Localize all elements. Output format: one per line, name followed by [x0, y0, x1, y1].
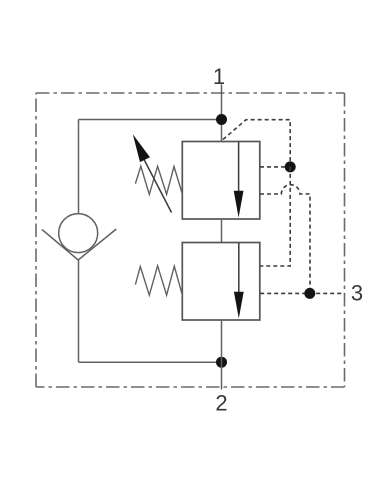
- wire: port 1 vertical into valve V1: [221, 85, 223, 142]
- wire: left branch upper vertical: [78, 120, 80, 215]
- svg-text:2: 2: [215, 391, 227, 416]
- pilot line P1 (inlet tap to node B): [223, 120, 290, 167]
- adjustment arrow (across spring S1): [143, 157, 172, 213]
- svg-text:3: 3: [351, 281, 363, 306]
- wire: bottom horizontal to outlet junction: [79, 361, 222, 363]
- wire: supply horizontal at inlet level: [79, 119, 222, 121]
- svg-text:1: 1: [213, 64, 225, 89]
- node D (outlet junction): [216, 357, 227, 368]
- valve V2 body (lower relief stage): [182, 243, 259, 321]
- boundary box (dash-dot enclosure): [36, 93, 345, 387]
- node A (inlet junction): [216, 114, 227, 125]
- wire: between valve V1 and valve V2: [221, 219, 223, 243]
- valve V1 flow arrow: [238, 142, 240, 193]
- wire: left branch lower vertical: [78, 260, 80, 362]
- check valve CV1 (ball): [59, 214, 98, 253]
- pilot line P3 (node B down to valve V2 right upper port): [260, 167, 290, 266]
- spring S1 (upper, adjustable): [135, 166, 182, 194]
- pilot line P4 (valve V1 lower right port, hop over P3, down to node C): [260, 185, 310, 294]
- check valve CV1 seat: [42, 229, 116, 260]
- pilot line P5 (valve V2 lower right port to port 3 through node C): [260, 292, 344, 294]
- node C (pilot junction at port 3): [304, 288, 315, 299]
- pilot line P2 (valve V1 right port to node B): [260, 166, 290, 168]
- wire: valve V2 outlet vertical: [221, 320, 223, 362]
- node B (pilot junction): [285, 161, 296, 172]
- valve V1 body (upper relief stage): [182, 142, 259, 220]
- valve V2 flow arrow: [238, 243, 240, 294]
- spring S2 (lower): [135, 266, 182, 296]
- wire: port 2 vertical through boundary: [221, 362, 223, 389]
